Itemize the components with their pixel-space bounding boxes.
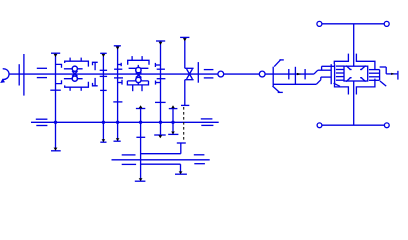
- top rail terminal left: [317, 21, 322, 26]
- fork IV upper cap: [114, 63, 122, 69]
- converter housing corner ties: [346, 66, 366, 82]
- bottom axle right coupling marks: [194, 155, 205, 164]
- bearing post x173: [168, 105, 178, 134]
- top left hanger: [334, 54, 348, 65]
- converter right plate stack: [369, 70, 380, 81]
- pinion P1 upper: [93, 62, 98, 70]
- coupling M1 (= marks): [37, 68, 47, 77]
- step up to converter top lead: [314, 66, 335, 74]
- converter left discs: [331, 64, 334, 84]
- gear block A upper roller: [72, 66, 77, 71]
- converter housing: [344, 66, 368, 81]
- top right hanger: [356, 54, 375, 70]
- shaft V vertical: [156, 41, 165, 135]
- converter right disc: [379, 70, 381, 81]
- right stub lead: [380, 67, 398, 80]
- top feed drop: [353, 24, 355, 66]
- bottom rail terminal left: [317, 123, 322, 128]
- coupling M2 (= marks): [204, 70, 214, 78]
- fork IV lower crossbar: [113, 101, 122, 103]
- coupling plate tall: [23, 54, 25, 96]
- spline bracket upper on shaft II: [56, 64, 62, 67]
- shaft VI vertical with clutch: [180, 37, 189, 105]
- bus junction dots: [54, 121, 175, 124]
- fork IV lower cap: [114, 78, 123, 85]
- wire main shaft: [9, 73, 314, 75]
- gear block A upper lay shaft: [64, 68, 83, 70]
- flow arrow on main shaft: [297, 73, 301, 75]
- step up from return line: [316, 77, 331, 84]
- frame bus left coupling marks: [36, 119, 48, 125]
- bottom axle left coupling marks: [122, 155, 136, 165]
- input crank arc: [0, 69, 9, 83]
- bottom rail: [322, 124, 385, 126]
- gear block A housing top: [65, 58, 89, 67]
- bottom rail terminal right: [384, 123, 389, 128]
- shaft III vertical: [100, 53, 107, 142]
- frame bus: [31, 121, 219, 123]
- pinion P1 lower: [93, 78, 98, 86]
- gear block B lower roller: [136, 77, 141, 82]
- universal joint U1: [218, 71, 224, 77]
- bottom axle: [112, 159, 210, 161]
- bottom feed drop: [353, 81, 355, 125]
- lower connector right: [141, 164, 187, 174]
- gear block B lower rack and frame: [127, 81, 148, 91]
- shaft V upper gear cap: [155, 63, 165, 69]
- spline bracket lower on shaft II: [56, 80, 62, 83]
- gear block B upper rack: [129, 67, 149, 69]
- axle post x140: [135, 105, 146, 181]
- converter left arrow: [334, 83, 340, 86]
- converter right arrow: [380, 81, 386, 86]
- gear block A housing bottom: [65, 82, 89, 91]
- fork IV foot: [114, 138, 121, 141]
- bottom right hanger: [356, 79, 375, 95]
- top rail terminal right: [384, 21, 389, 26]
- frame bus right coupling marks: [201, 119, 214, 126]
- lower return line: [274, 83, 317, 85]
- lever bar: [273, 60, 284, 93]
- gear block A lower roller: [72, 76, 77, 81]
- top rail: [321, 23, 386, 25]
- gear block A cross ties: [72, 71, 77, 76]
- chain link bars: [289, 67, 305, 85]
- shaft V lower gear cap: [156, 79, 166, 85]
- gear block B upper roller: [136, 67, 141, 72]
- shaft II vertical: [50, 53, 61, 151]
- clutch X1 jaws: [185, 68, 194, 79]
- bottom left hanger: [335, 84, 349, 94]
- fork shaft IV vertical: [114, 46, 121, 141]
- shaft V foot: [154, 135, 166, 138]
- gear block B cross ties: [136, 72, 142, 77]
- clutch X1 disc: [197, 62, 199, 83]
- gear block B housing top: [128, 56, 149, 65]
- gear block B upper roller stem: [137, 65, 139, 68]
- coupling plate short: [18, 64, 20, 85]
- shaft V crossbar: [155, 101, 166, 103]
- universal joint U2: [259, 71, 265, 77]
- selector link cap: [141, 143, 186, 154]
- converter left plate stack: [336, 66, 344, 80]
- selector dashed link: [183, 107, 185, 142]
- gear block A lower lay shaft: [64, 78, 83, 80]
